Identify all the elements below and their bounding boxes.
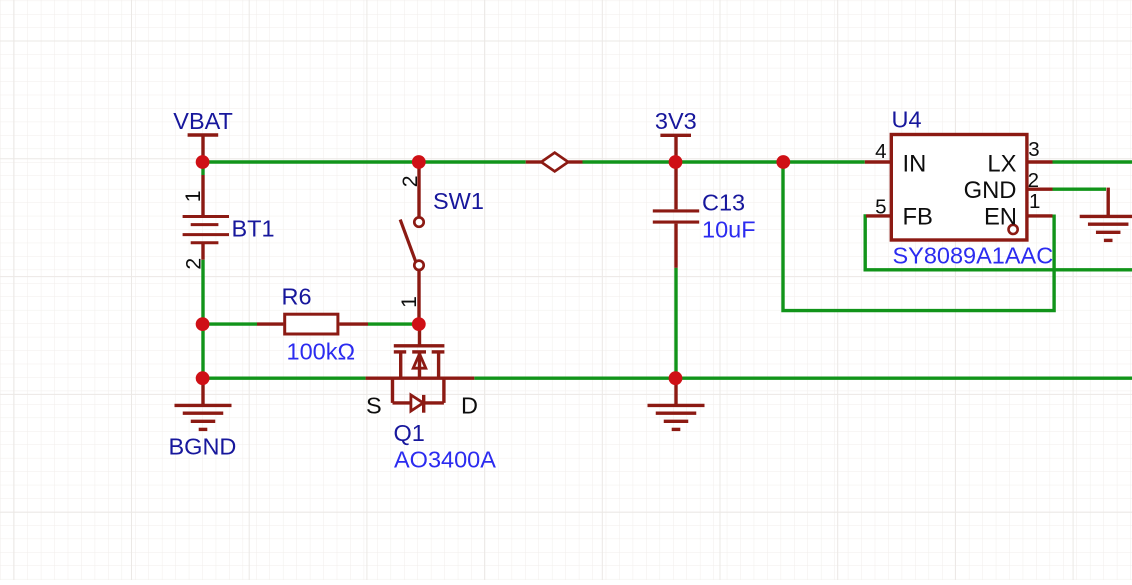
ground right of U4 [1080,215,1132,218]
svg-text:2: 2 [182,258,205,270]
svg-text:LX: LX [987,150,1016,177]
wire EN loop [783,162,1054,311]
junction R6/SW1/Q1 [412,317,426,331]
ground BGND [201,378,204,404]
svg-text:1: 1 [398,296,421,308]
wire C13 column [674,268,677,378]
net port diamond [526,160,542,163]
wire R6 left [203,322,257,325]
svg-text:U4: U4 [892,106,922,132]
wire BT1 column upper [201,162,204,175]
svg-text:5: 5 [875,196,886,219]
svg-text:BGND: BGND [169,434,237,460]
wire GND drop [1106,188,1109,216]
svg-text:EN: EN [984,204,1017,231]
svg-text:BT1: BT1 [232,215,275,241]
switch SW1 [417,166,420,217]
svg-text:1: 1 [182,190,205,202]
pin 3 LX stub [1027,160,1053,163]
junction VBAT/BT1 [196,155,210,169]
svg-text:D: D [461,393,478,419]
power flag VBAT [188,133,219,136]
svg-text:AO3400A: AO3400A [394,446,496,472]
pin 4 IN stub [865,160,892,163]
pin 5 FB stub [866,214,891,217]
svg-text:VBAT: VBAT [173,108,233,134]
capacitor C13 [674,162,677,209]
svg-text:2: 2 [399,176,422,188]
wire VBAT rail right segment [583,160,865,163]
svg-text:4: 4 [875,140,886,163]
wire R6 right [368,322,419,325]
svg-text:3V3: 3V3 [655,108,697,134]
transistor Q1 body [418,324,421,346]
battery BT1 [201,175,204,217]
pin 2 GND stub [1027,187,1053,190]
junction BT1/R6 [196,317,210,331]
svg-text:FB: FB [903,204,933,231]
svg-text:R6: R6 [282,284,312,310]
svg-text:100kΩ: 100kΩ [287,339,356,365]
wire GND pin to ground [1053,187,1107,190]
svg-text:2: 2 [1028,169,1039,192]
EN pin circle [1009,225,1018,234]
wire VBAT rail left segment [203,160,526,163]
junction 3V3/C13 [669,155,683,169]
svg-text:GND: GND [964,177,1017,204]
wire FB loop [865,216,1132,270]
svg-text:SW1: SW1 [433,188,484,214]
wire LX output [1053,160,1132,163]
power flag 3V3 [660,134,691,137]
svg-text:3: 3 [1028,138,1039,161]
transistor Q1 body diode [391,378,394,403]
wire BT1 column lower [201,260,204,379]
svg-text:C13: C13 [702,189,745,215]
op IC U4 box [891,135,1027,241]
svg-text:SY8089A1AAC: SY8089A1AAC [893,243,1054,269]
junction BGND [196,371,210,385]
junction SW1 top [412,155,426,169]
junction C13 ground [669,371,683,385]
svg-text:1: 1 [1029,190,1040,213]
wire bottom ground rail right [474,377,1132,380]
svg-text:10uF: 10uF [702,217,756,243]
svg-text:IN: IN [903,150,927,177]
pin 1 EN stub [1027,214,1053,217]
resistor R6 [257,322,283,325]
junction EN tap [776,155,790,169]
svg-text:Q1: Q1 [394,420,425,446]
wire bottom ground rail left [203,377,366,380]
svg-text:S: S [366,393,382,419]
ground under C13 [674,378,677,404]
